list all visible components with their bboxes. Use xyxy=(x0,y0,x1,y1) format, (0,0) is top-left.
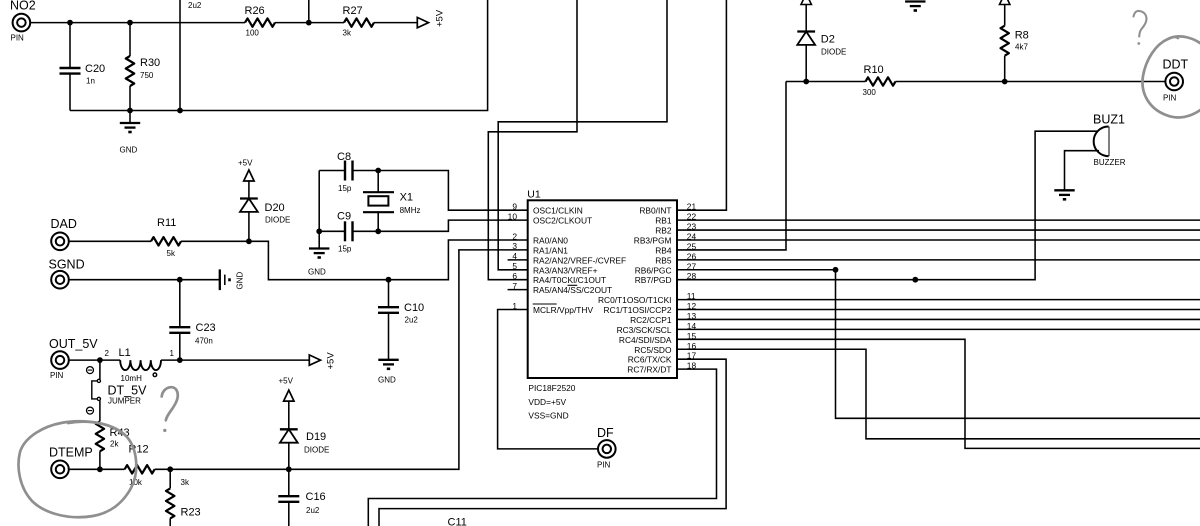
terminal BUZ1 label xyxy=(1093,113,1125,127)
pin DAD xyxy=(51,233,69,251)
svg-text:C9: C9 xyxy=(337,211,351,223)
pin SGND xyxy=(51,271,69,289)
junction rail left xyxy=(127,108,133,114)
svg-text:RC0/T1OSO/T1CKI: RC0/T1OSO/T1CKI xyxy=(598,295,672,305)
wire pin6 route xyxy=(488,0,577,280)
ground C10 xyxy=(378,360,399,385)
svg-text:GND: GND xyxy=(378,376,396,385)
svg-text:2u2: 2u2 xyxy=(405,316,419,325)
svg-text:VSS=GND: VSS=GND xyxy=(528,410,568,420)
wire jumper top lead xyxy=(99,360,101,379)
junction C23 top xyxy=(177,277,183,283)
svg-text:5: 5 xyxy=(512,261,517,271)
wire OUT_5V row xyxy=(68,359,120,361)
jumper DT_5V xyxy=(92,379,147,405)
svg-text:R27: R27 xyxy=(343,5,363,17)
svg-text:JUMPER: JUMPER xyxy=(108,397,141,406)
svg-text:RA0/AN0: RA0/AN0 xyxy=(533,236,568,246)
wire pin17 route xyxy=(379,359,726,526)
svg-text:DTEMP: DTEMP xyxy=(49,445,93,459)
svg-text:C8: C8 xyxy=(337,151,351,163)
svg-text:RC5/SDO: RC5/SDO xyxy=(634,345,672,355)
svg-text:PIN: PIN xyxy=(50,371,64,380)
wire R11 to D20 xyxy=(181,240,249,242)
svg-text:1n: 1n xyxy=(86,77,95,86)
wire buzzer bottom xyxy=(1065,151,1100,191)
svg-text:DDT: DDT xyxy=(1163,58,1189,72)
capacitor C8 xyxy=(337,151,353,193)
wire pin5 route xyxy=(498,0,667,270)
svg-text:+5V: +5V xyxy=(238,159,253,168)
svg-text:X1: X1 xyxy=(400,192,413,204)
terminal OUT_5V label xyxy=(49,337,98,351)
svg-text:PIN: PIN xyxy=(597,461,611,470)
wire pin16 route xyxy=(677,349,1200,439)
svg-text:2k: 2k xyxy=(110,440,119,449)
wire pin23 to edge xyxy=(677,229,1200,231)
svg-text:2u2: 2u2 xyxy=(306,506,320,515)
svg-text:RB2: RB2 xyxy=(655,226,672,236)
ground R30 xyxy=(120,111,141,155)
terminal NO2 label xyxy=(10,0,36,12)
svg-text:470n: 470n xyxy=(195,337,213,346)
junction C9-X1 xyxy=(375,228,381,234)
svg-text:5k: 5k xyxy=(167,249,176,258)
svg-text:RC2/CCP1: RC2/CCP1 xyxy=(630,315,672,325)
junction jumper top xyxy=(97,357,103,363)
junction C8-X1 xyxy=(375,168,381,174)
pin DDT xyxy=(1163,73,1183,103)
resistor R10 xyxy=(863,64,896,97)
svg-text:750: 750 xyxy=(140,71,154,80)
wire pin12 to edge xyxy=(677,309,1200,311)
junction C10 top xyxy=(386,277,392,283)
svg-text:DIODE: DIODE xyxy=(821,48,846,57)
svg-text:DIODE: DIODE xyxy=(304,446,329,455)
junction C9 left xyxy=(316,228,322,234)
power +5V (D20) xyxy=(238,159,254,199)
svg-text:BUZ1: BUZ1 xyxy=(1093,113,1125,127)
wire pin10 route xyxy=(378,220,528,231)
power +5V arrow right (R27) xyxy=(417,9,445,28)
resistor R11 xyxy=(151,217,181,258)
junction D2 xyxy=(803,79,809,85)
terminal DDT label xyxy=(1163,58,1189,72)
svg-text:BUZZER: BUZZER xyxy=(1094,158,1126,167)
junction D19 xyxy=(286,466,292,472)
pin NO2 xyxy=(11,14,31,43)
svg-text:D2: D2 xyxy=(821,34,835,46)
svg-text:R30: R30 xyxy=(140,57,160,69)
crystal X1 xyxy=(363,171,420,232)
svg-text:3k: 3k xyxy=(343,28,352,37)
wire C23 column xyxy=(179,280,181,360)
svg-text:+5V: +5V xyxy=(326,352,337,370)
svg-text:RC6/TX/CK: RC6/TX/CK xyxy=(628,355,672,365)
wire D20 jog to pin2 row xyxy=(249,240,528,280)
svg-text:RB5: RB5 xyxy=(655,255,672,265)
wire pin14 to edge xyxy=(677,328,1200,330)
wire R27 to +5V xyxy=(374,22,417,24)
junction rail 2u2 xyxy=(177,108,183,114)
svg-text:100: 100 xyxy=(246,28,260,37)
junction R43 bottom xyxy=(97,466,103,472)
svg-text:6: 6 xyxy=(512,271,517,281)
svg-text:RB7/PGD: RB7/PGD xyxy=(635,275,672,285)
svg-text:1: 1 xyxy=(170,349,175,358)
resistor R30 xyxy=(126,23,160,111)
resistor R8 xyxy=(1001,26,1029,82)
resistor R23 xyxy=(166,469,201,526)
svg-text:+5V: +5V xyxy=(435,9,446,27)
svg-text:C20: C20 xyxy=(85,63,105,75)
svg-text:GND: GND xyxy=(120,146,138,155)
terminal DAD label xyxy=(51,217,77,231)
svg-text:C10: C10 xyxy=(404,302,424,314)
junction R8 xyxy=(1002,79,1008,85)
wire pin21 route up xyxy=(677,0,726,210)
svg-text:RA4/T0CKI/C1OUT: RA4/T0CKI/C1OUT xyxy=(533,275,606,285)
label L1 pin 1 xyxy=(170,349,175,358)
wire C9 row xyxy=(319,230,378,232)
wire pin22 to edge xyxy=(677,219,1200,221)
svg-text:C11: C11 xyxy=(448,517,467,526)
capacitor C9 xyxy=(337,211,353,254)
svg-text:3k: 3k xyxy=(181,478,190,487)
inductor L1 xyxy=(119,347,161,383)
wire L1 to +5V xyxy=(161,359,309,361)
svg-text:RC3/SCK/SCL: RC3/SCK/SCL xyxy=(617,325,672,335)
annotation circle around DDT xyxy=(1142,36,1200,117)
svg-text:PIC18F2520: PIC18F2520 xyxy=(528,383,575,393)
svg-text:D19: D19 xyxy=(306,431,326,443)
wire C16 column xyxy=(288,469,290,526)
svg-text:L1: L1 xyxy=(119,347,131,359)
wire SGND row xyxy=(68,279,219,281)
svg-text:PIN: PIN xyxy=(11,34,25,43)
wire DTEMP row xyxy=(68,468,124,470)
svg-text:1: 1 xyxy=(512,301,517,311)
junction C23 bottom xyxy=(177,357,183,363)
wire MCLR pin1 route xyxy=(498,310,599,449)
wire C8 row xyxy=(319,170,378,172)
resistor R12 xyxy=(125,443,155,487)
svg-text:8MHz: 8MHz xyxy=(400,206,421,215)
wire pin11 to edge xyxy=(677,299,1200,301)
junction R23 top xyxy=(167,466,173,472)
wire pin18 route xyxy=(368,369,716,526)
wire pin9 route xyxy=(378,171,528,211)
svg-text:2: 2 xyxy=(512,231,517,241)
svg-text:DAD: DAD xyxy=(51,217,77,231)
svg-text:10: 10 xyxy=(508,211,518,221)
wire D19 row to pin3 xyxy=(289,250,528,469)
wire C10 column xyxy=(388,280,390,360)
power +5V (D19) xyxy=(279,377,295,430)
svg-text:DF: DF xyxy=(597,426,614,440)
jumper pin marker bottom xyxy=(87,407,94,414)
wire pin28 route to buzzer xyxy=(677,131,1097,280)
IC U1 PIC18F2520 chip body xyxy=(527,189,677,421)
wire R12 to D19 xyxy=(155,468,289,470)
junction pin28 xyxy=(912,277,918,283)
svg-text:NO2: NO2 xyxy=(10,0,36,12)
capacitor C16 xyxy=(278,491,325,515)
svg-text:R10: R10 xyxy=(864,64,884,76)
svg-text:D20: D20 xyxy=(265,202,285,214)
wire pin27 route xyxy=(677,270,1200,419)
diode D2 xyxy=(797,32,846,82)
svg-text:RC1/T1OSI/CCP2: RC1/T1OSI/CCP2 xyxy=(604,305,672,315)
svg-text:U1: U1 xyxy=(527,189,541,201)
wire R26-R27 xyxy=(275,22,344,24)
wire pin26 to edge xyxy=(677,259,1200,261)
terminal DF label xyxy=(597,426,614,440)
svg-text:+5V: +5V xyxy=(279,377,294,386)
svg-text:DIODE: DIODE xyxy=(265,216,290,225)
pin DF xyxy=(597,440,616,469)
diode D19 xyxy=(280,429,329,469)
svg-text:DT_5V: DT_5V xyxy=(108,383,148,397)
svg-text:R8: R8 xyxy=(1015,30,1029,42)
svg-text:GND: GND xyxy=(236,272,245,290)
svg-text:15p: 15p xyxy=(338,245,352,254)
wire pin24 to edge xyxy=(677,239,1200,241)
svg-text:300: 300 xyxy=(863,88,877,97)
svg-text:SGND: SGND xyxy=(49,257,85,271)
ground SGND rotated xyxy=(220,269,245,290)
svg-text:GND: GND xyxy=(308,268,326,277)
capacitor C11 label xyxy=(448,517,467,526)
wire jumper to R43 xyxy=(99,401,101,422)
terminal DTEMP label xyxy=(49,445,93,459)
svg-text:10mH: 10mH xyxy=(121,374,143,383)
wire left column crystal xyxy=(318,171,320,232)
svg-text:OSC2/CLKOUT: OSC2/CLKOUT xyxy=(533,216,592,226)
capacitor C10 xyxy=(378,302,424,325)
terminal SGND label xyxy=(49,257,85,271)
resistor R26 xyxy=(245,5,276,37)
wire DAD row xyxy=(68,240,151,242)
svg-text:R11: R11 xyxy=(157,217,176,229)
svg-text:RA3/AN3/VREF+: RA3/AN3/VREF+ xyxy=(533,265,598,275)
svg-text:RC4/SDI/SDA: RC4/SDI/SDA xyxy=(619,335,672,345)
svg-text:3: 3 xyxy=(512,241,517,251)
svg-text:RB6/PGC: RB6/PGC xyxy=(635,265,672,275)
junction R26 R27 xyxy=(306,20,312,26)
ground crystal xyxy=(308,231,329,276)
U1 pin names and numbers xyxy=(508,202,697,375)
wire pin15 route xyxy=(677,339,1200,448)
annotation question mark near DT_5V xyxy=(162,387,178,432)
pin OUT_5V xyxy=(50,351,69,380)
svg-text:RB1: RB1 xyxy=(655,216,672,226)
jumper pin marker top xyxy=(87,367,94,374)
svg-text:RB4: RB4 xyxy=(655,245,672,255)
ground floating top xyxy=(905,2,925,11)
power +5V arrow (D2, cut) xyxy=(801,0,811,32)
diode D20 xyxy=(240,199,290,242)
svg-text:2u2: 2u2 xyxy=(188,1,202,10)
svg-text:OSC1/CLKIN: OSC1/CLKIN xyxy=(533,206,583,216)
wire up from R26/R27 junction xyxy=(308,0,310,23)
power +5V arrow (R8, cut) xyxy=(1000,0,1010,26)
svg-text:RA2/AN2/VREF-/CVREF: RA2/AN2/VREF-/CVREF xyxy=(533,255,626,265)
junction R30 top xyxy=(127,20,133,26)
buzzer BUZ1 xyxy=(1094,127,1126,168)
svg-text:VDD=+5V: VDD=+5V xyxy=(528,397,566,407)
wire D2 R10 DDT row xyxy=(786,81,1166,83)
svg-text:RA5/AN4/SS/C2OUT: RA5/AN4/SS/C2OUT xyxy=(533,285,612,295)
svg-text:MCLR/Vpp/THV: MCLR/Vpp/THV xyxy=(533,305,593,315)
annotation question mark near DDT xyxy=(1134,11,1147,45)
wire NO2 row xyxy=(30,22,245,24)
svg-text:OUT_5V: OUT_5V xyxy=(49,337,98,351)
wire C20 column xyxy=(69,23,71,111)
wire pin13 to edge xyxy=(677,318,1200,320)
svg-text:15p: 15p xyxy=(338,184,352,193)
junction C20 top xyxy=(67,20,73,26)
svg-text:R23: R23 xyxy=(181,507,201,519)
U1 pin 4 stub xyxy=(508,259,528,261)
svg-text:C16: C16 xyxy=(306,491,326,503)
junction pin27 corner xyxy=(833,267,839,273)
ground buzzer xyxy=(1054,190,1074,199)
capacitor C23 xyxy=(169,322,215,346)
power +5V arrow right (L1) xyxy=(309,352,336,370)
svg-text:RA1/AN1: RA1/AN1 xyxy=(533,245,568,255)
pin DTEMP xyxy=(51,461,69,479)
svg-text:RB0/INT: RB0/INT xyxy=(639,206,671,216)
resistor R27 xyxy=(343,5,375,37)
wire cutoff-cap column 2u2 xyxy=(180,0,202,111)
svg-text:R26: R26 xyxy=(245,5,265,17)
svg-text:C23: C23 xyxy=(196,322,216,334)
wire pin25 route up to D2 row xyxy=(677,82,786,250)
svg-text:RB3/PGM: RB3/PGM xyxy=(634,235,672,245)
junction D20 xyxy=(246,238,252,244)
annotation circle around DTEMP xyxy=(19,421,137,517)
svg-text:9: 9 xyxy=(512,202,517,212)
label L1 pin 2 xyxy=(105,349,110,358)
svg-text:PIN: PIN xyxy=(1163,94,1177,103)
U1 pin 7 stub xyxy=(508,289,528,291)
svg-text:RC7/RX/DT: RC7/RX/DT xyxy=(627,365,671,375)
wire bottom rail xyxy=(70,0,488,111)
resistor R43 xyxy=(96,421,130,469)
capacitor C20 xyxy=(60,63,106,86)
svg-text:2: 2 xyxy=(105,349,110,358)
svg-text:4k7: 4k7 xyxy=(1015,43,1028,52)
